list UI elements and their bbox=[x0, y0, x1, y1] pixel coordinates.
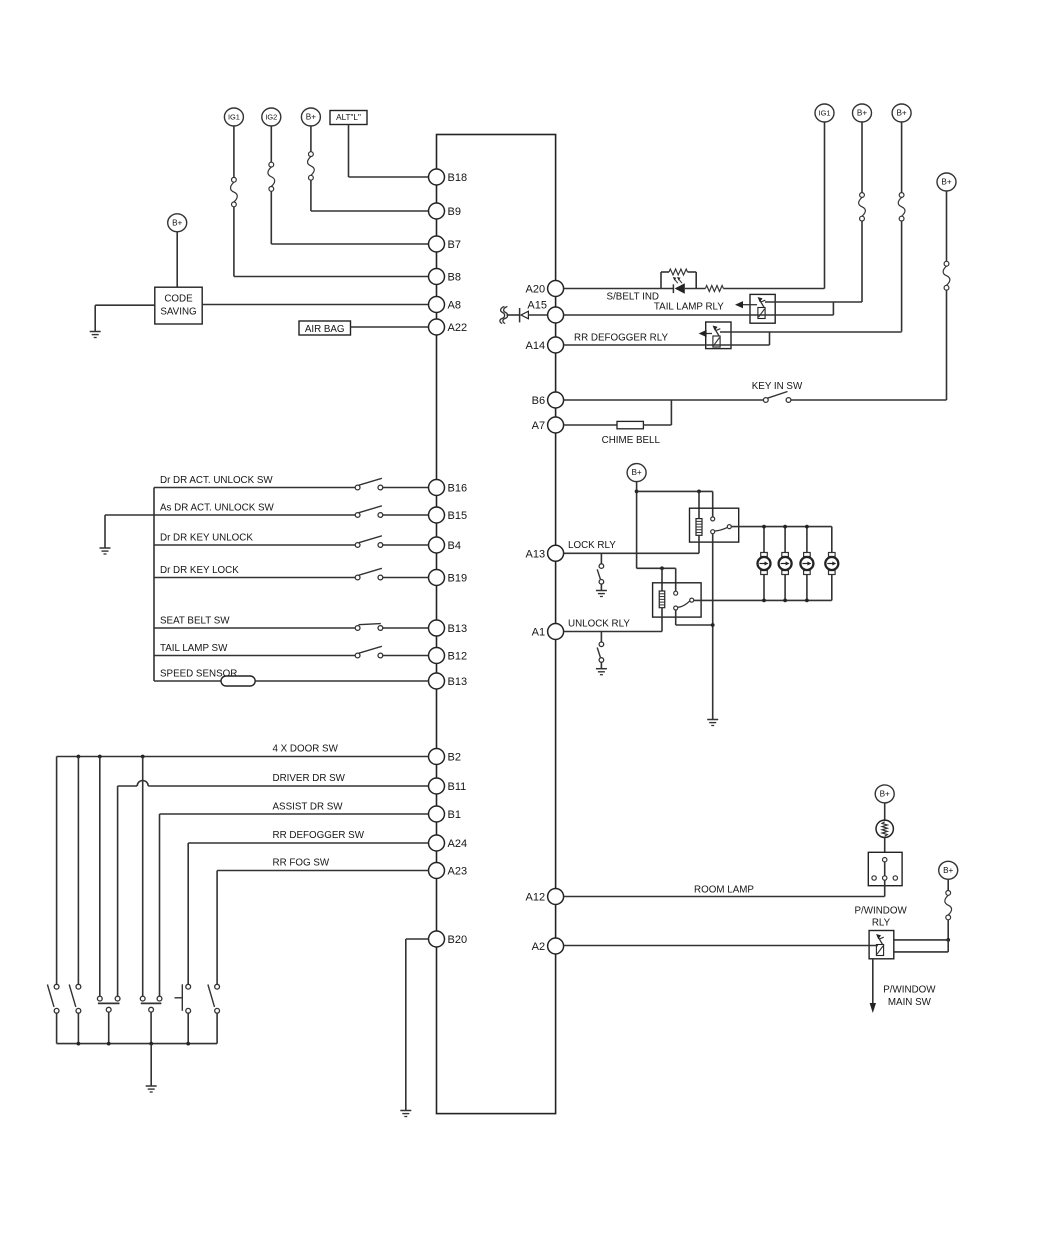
svg-text:B9: B9 bbox=[448, 206, 461, 218]
svg-text:A23: A23 bbox=[448, 866, 468, 878]
svg-text:SAVING: SAVING bbox=[160, 307, 196, 318]
svg-text:B12: B12 bbox=[448, 651, 468, 663]
svg-text:4 X DOOR SW: 4 X DOOR SW bbox=[273, 744, 339, 755]
svg-text:B+: B+ bbox=[172, 218, 182, 227]
svg-text:S/BELT IND: S/BELT IND bbox=[607, 292, 659, 303]
svg-text:B16: B16 bbox=[448, 483, 468, 495]
svg-text:IG2: IG2 bbox=[265, 113, 277, 122]
svg-text:B1: B1 bbox=[448, 809, 461, 821]
svg-text:B20: B20 bbox=[448, 934, 468, 946]
svg-text:MAIN SW: MAIN SW bbox=[888, 997, 932, 1008]
svg-text:Dr DR KEY UNLOCK: Dr DR KEY UNLOCK bbox=[160, 533, 253, 544]
svg-text:B+: B+ bbox=[306, 113, 316, 122]
svg-text:CHIME BELL: CHIME BELL bbox=[602, 435, 661, 446]
svg-text:RR DEFOGGER RLY: RR DEFOGGER RLY bbox=[574, 333, 668, 344]
svg-text:B19: B19 bbox=[448, 573, 468, 585]
svg-text:A22: A22 bbox=[448, 322, 468, 334]
svg-text:B8: B8 bbox=[448, 272, 461, 284]
svg-text:A15: A15 bbox=[527, 300, 547, 312]
svg-text:A13: A13 bbox=[526, 549, 546, 561]
svg-text:TAIL LAMP SW: TAIL LAMP SW bbox=[160, 643, 228, 654]
svg-text:Dr DR KEY LOCK: Dr DR KEY LOCK bbox=[160, 565, 239, 576]
svg-text:A2: A2 bbox=[532, 941, 545, 953]
svg-text:B+: B+ bbox=[943, 866, 953, 875]
svg-text:ALT"L": ALT"L" bbox=[336, 113, 361, 122]
svg-text:B15: B15 bbox=[448, 510, 468, 522]
svg-text:CODE: CODE bbox=[164, 294, 193, 305]
svg-text:B11: B11 bbox=[448, 781, 467, 793]
svg-text:B13: B13 bbox=[448, 623, 468, 635]
svg-text:B+: B+ bbox=[880, 790, 890, 799]
svg-text:A14: A14 bbox=[526, 340, 546, 352]
svg-text:B7: B7 bbox=[448, 239, 461, 251]
svg-text:TAIL LAMP RLY: TAIL LAMP RLY bbox=[654, 302, 724, 313]
svg-text:IG1: IG1 bbox=[228, 113, 240, 122]
svg-text:B18: B18 bbox=[448, 172, 468, 184]
svg-text:LOCK RLY: LOCK RLY bbox=[568, 540, 616, 551]
svg-text:KEY IN SW: KEY IN SW bbox=[752, 381, 803, 392]
svg-text:RR DEFOGGER SW: RR DEFOGGER SW bbox=[273, 830, 365, 841]
svg-text:ROOM LAMP: ROOM LAMP bbox=[694, 885, 754, 896]
svg-text:A8: A8 bbox=[448, 300, 461, 312]
svg-text:A1: A1 bbox=[532, 627, 545, 639]
svg-text:AIR BAG: AIR BAG bbox=[305, 324, 345, 335]
svg-text:B+: B+ bbox=[631, 468, 641, 477]
svg-text:DRIVER DR SW: DRIVER DR SW bbox=[273, 773, 346, 784]
svg-text:P/WINDOW: P/WINDOW bbox=[883, 985, 936, 996]
svg-text:B4: B4 bbox=[448, 540, 461, 552]
svg-text:B+: B+ bbox=[896, 109, 906, 118]
svg-text:IG1: IG1 bbox=[819, 109, 831, 118]
svg-text:B13: B13 bbox=[448, 676, 468, 688]
svg-text:UNLOCK RLY: UNLOCK RLY bbox=[568, 619, 630, 630]
svg-text:A24: A24 bbox=[448, 838, 468, 850]
svg-text:B6: B6 bbox=[532, 395, 545, 407]
svg-text:B+: B+ bbox=[941, 178, 951, 187]
svg-text:P/WINDOW: P/WINDOW bbox=[854, 906, 907, 917]
svg-text:RLY: RLY bbox=[872, 918, 891, 929]
svg-text:A20: A20 bbox=[526, 284, 546, 296]
svg-text:SEAT BELT SW: SEAT BELT SW bbox=[160, 616, 230, 627]
svg-text:A7: A7 bbox=[532, 420, 545, 432]
svg-text:B2: B2 bbox=[448, 752, 461, 764]
svg-text:Dr DR ACT. UNLOCK SW: Dr DR ACT. UNLOCK SW bbox=[160, 475, 273, 486]
svg-text:As DR ACT. UNLOCK SW: As DR ACT. UNLOCK SW bbox=[160, 503, 275, 514]
svg-text:B+: B+ bbox=[857, 109, 867, 118]
svg-text:ASSIST DR SW: ASSIST DR SW bbox=[273, 802, 344, 813]
svg-text:A12: A12 bbox=[526, 892, 546, 904]
svg-text:RR FOG SW: RR FOG SW bbox=[273, 858, 330, 869]
